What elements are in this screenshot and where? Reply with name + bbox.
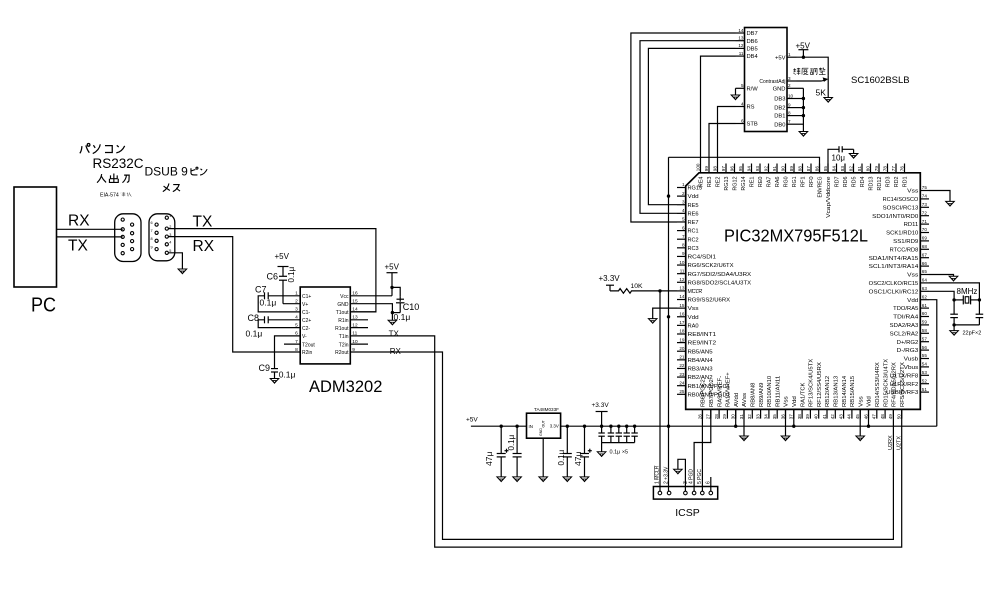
regulator U3 TA48M033F body <box>527 413 561 438</box>
junction DB1 <box>802 114 805 117</box>
svg-text:14: 14 <box>679 294 685 299</box>
svg-text:1: 1 <box>682 182 685 187</box>
svg-text:RB5/AN5: RB5/AN5 <box>688 349 713 355</box>
svg-text:42: 42 <box>830 414 835 420</box>
svg-text:AVss: AVss <box>742 392 748 407</box>
svg-text:GND: GND <box>337 302 349 308</box>
svg-text:Vss: Vss <box>907 189 919 195</box>
svg-text:2 +3.3V: 2 +3.3V <box>664 466 670 484</box>
svg-text:RA6: RA6 <box>775 176 781 187</box>
svg-text:T1in: T1in <box>339 334 349 340</box>
wire Vss pin45 to ground <box>859 409 861 436</box>
svg-text:0.1μ: 0.1μ <box>279 370 296 380</box>
svg-text:RX: RX <box>68 213 90 230</box>
wire rail to Vdd pin62 <box>929 300 937 427</box>
wire Vdd top rail to ENVREG pin86 <box>669 157 820 173</box>
ground at crystal <box>950 331 959 336</box>
svg-text:92: 92 <box>763 166 768 172</box>
svg-text:54: 54 <box>922 362 928 367</box>
svg-text:+5V: +5V <box>275 252 290 261</box>
svg-text:58: 58 <box>922 328 928 333</box>
label pasokon (katakana) <box>80 144 125 154</box>
svg-text:7: 7 <box>151 229 153 233</box>
svg-text:33: 33 <box>755 414 760 420</box>
svg-text:ICSP: ICSP <box>675 507 700 519</box>
svg-text:48: 48 <box>880 414 885 420</box>
svg-text:R1in: R1in <box>338 318 349 324</box>
U2 left pin stubs 1-25 <box>677 187 686 189</box>
wire Vdd pin37 to rail <box>793 409 795 426</box>
wire DB7 to U2 pin5 RE7 <box>631 33 736 222</box>
svg-text:77: 77 <box>891 166 896 172</box>
wire AVdd pin30 to rail <box>735 409 737 426</box>
svg-text:17: 17 <box>679 320 685 325</box>
svg-text:RB7/PGD2: RB7/PGD2 <box>709 379 715 407</box>
svg-text:80: 80 <box>865 166 870 172</box>
svg-text:10: 10 <box>679 260 685 265</box>
wire crystal caps to ground <box>954 324 979 326</box>
potentiometer VR1 5K <box>827 75 829 97</box>
svg-text:30: 30 <box>731 414 736 420</box>
U2 bottom pin stubs 26-50 <box>702 409 704 418</box>
svg-text:8: 8 <box>682 243 685 248</box>
junction C13 <box>566 425 569 428</box>
ground at R/W <box>731 95 740 100</box>
svg-text:RE8/INT1: RE8/INT1 <box>688 332 717 338</box>
svg-text:2: 2 <box>788 83 791 88</box>
svg-text:RG0: RG0 <box>784 176 790 187</box>
capacitor C10 polarized <box>397 298 405 300</box>
svg-text:SCL2/RA2: SCL2/RA2 <box>890 331 919 337</box>
PC box <box>14 187 57 287</box>
wire +5V to C10 <box>392 287 400 296</box>
svg-text:36: 36 <box>780 414 785 420</box>
wire TX from PC to DSUB male <box>57 236 123 238</box>
svg-text:+5V: +5V <box>466 417 478 424</box>
svg-text:5: 5 <box>741 83 744 88</box>
svg-text:0.1μ: 0.1μ <box>260 297 277 307</box>
junction crystal right <box>978 298 981 301</box>
svg-text:8MHz: 8MHz <box>957 287 978 296</box>
svg-text:60: 60 <box>922 311 928 316</box>
ground below cap bank <box>597 452 606 457</box>
junction LCD +5V <box>802 56 805 59</box>
junction Vdd pin16 <box>667 315 670 318</box>
connector J2 DSUB9 female outline <box>149 214 175 261</box>
svg-text:72: 72 <box>922 210 928 215</box>
wire U1 pin14 T1out stub <box>350 311 376 313</box>
svg-text:C2+: C2+ <box>302 318 311 324</box>
svg-text:14: 14 <box>738 28 744 33</box>
svg-text:11: 11 <box>739 51 744 56</box>
svg-text:12: 12 <box>679 277 685 282</box>
svg-text:+3.3V: +3.3V <box>592 402 610 409</box>
wire STB to U2 pin99 RE3 <box>709 124 736 164</box>
connector J4 LCD SC1602BSLB body <box>745 28 788 132</box>
svg-text:RF0: RF0 <box>809 176 815 187</box>
wire U2 pin15 Vss to ground <box>653 308 677 319</box>
crystal X1 8MHz <box>954 299 963 301</box>
svg-text:32: 32 <box>747 414 752 420</box>
svg-text:RE7: RE7 <box>688 220 699 226</box>
junction crystal left <box>952 298 955 301</box>
ground at C22 <box>849 154 858 159</box>
svg-text:29: 29 <box>722 414 727 420</box>
svg-text:27: 27 <box>706 414 711 420</box>
svg-text:22: 22 <box>679 363 685 368</box>
wire +5V rail to regulator IN <box>471 425 527 427</box>
svg-text:46: 46 <box>863 414 868 420</box>
capacitor C11 47u electrolytic <box>500 426 502 453</box>
svg-text:20: 20 <box>679 346 685 351</box>
svg-text:91: 91 <box>772 166 777 172</box>
IC U2 PIC32MX795F512L body <box>686 173 921 410</box>
wire OSC1 pin63 to crystal <box>929 291 954 300</box>
svg-text:RC2: RC2 <box>688 237 699 243</box>
svg-text:SCL1/INT3/RA14: SCL1/INT3/RA14 <box>869 264 919 270</box>
svg-text:Vdd: Vdd <box>792 396 798 407</box>
svg-text:RG7/SDI2/SDA4/U3RX: RG7/SDI2/SDA4/U3RX <box>688 272 752 278</box>
ground below J2 <box>178 269 187 274</box>
wire 3.3V rail from regulator <box>561 425 937 427</box>
svg-text:RG6/SCK2/U6TX: RG6/SCK2/U6TX <box>688 263 735 269</box>
svg-text:MCLR: MCLR <box>688 289 703 295</box>
connector J1 pins <box>121 218 124 221</box>
svg-text:7: 7 <box>682 234 685 239</box>
svg-text:RE5: RE5 <box>688 203 699 209</box>
svg-text:TX: TX <box>68 238 88 255</box>
svg-text:TDI/RA4: TDI/RA4 <box>893 315 918 321</box>
svg-text:3: 3 <box>682 199 685 204</box>
wire U1 pin16 Vcc <box>350 295 392 297</box>
svg-text:45: 45 <box>855 414 860 420</box>
label kido chosei (brightness adjust) <box>793 68 825 75</box>
ground at AVss <box>740 436 749 441</box>
junction MCLR to ICSP <box>658 289 661 292</box>
svg-text:37: 37 <box>789 414 794 420</box>
svg-text:RG12: RG12 <box>733 176 739 190</box>
svg-text:RE2: RE2 <box>716 176 722 187</box>
svg-text:RB10/AN10: RB10/AN10 <box>767 376 773 407</box>
svg-text:1: 1 <box>169 214 171 218</box>
svg-text:10: 10 <box>352 339 358 345</box>
ground at pin65 <box>949 276 958 281</box>
capacitor C9 <box>271 368 278 370</box>
svg-text:Vcap/Vddcore: Vcap/Vddcore <box>826 176 832 218</box>
capacitor C20 22pF <box>953 300 955 314</box>
svg-text:38: 38 <box>797 414 802 420</box>
svg-text:OUT: OUT <box>542 420 546 427</box>
svg-text:RA9/VREF-: RA9/VREF- <box>717 376 723 407</box>
svg-text:40: 40 <box>814 414 819 420</box>
svg-text:C1-: C1- <box>302 310 310 316</box>
wire Vss pin75 to ground <box>929 191 950 202</box>
svg-text:35: 35 <box>772 414 777 420</box>
svg-text:RD1: RD1 <box>903 176 909 187</box>
svg-text:C2-: C2- <box>302 326 310 332</box>
svg-text:81: 81 <box>857 166 862 172</box>
svg-text:69: 69 <box>922 236 928 241</box>
svg-text:C6: C6 <box>266 272 278 282</box>
svg-text:Vcc: Vcc <box>340 294 349 300</box>
svg-text:8: 8 <box>295 347 298 353</box>
U1 left pin stubs <box>284 343 300 345</box>
svg-text:RE1: RE1 <box>750 176 756 187</box>
svg-text:82: 82 <box>848 166 853 172</box>
svg-text:25: 25 <box>679 389 685 394</box>
resistor R1 10K <box>610 289 677 294</box>
svg-text:67: 67 <box>922 252 928 257</box>
svg-text:RD15/SCK3/U4TX: RD15/SCK3/U4TX <box>883 358 889 407</box>
svg-text:55: 55 <box>922 353 928 358</box>
wire Vcap pin85 to C22 <box>828 149 839 173</box>
svg-text:89: 89 <box>789 166 794 172</box>
junction GND C10 <box>391 311 394 314</box>
svg-text:34: 34 <box>764 414 769 420</box>
svg-text:8: 8 <box>151 237 153 241</box>
svg-text:15: 15 <box>679 303 685 308</box>
svg-text:6: 6 <box>682 225 685 230</box>
svg-text:0.1μ: 0.1μ <box>507 434 516 450</box>
svg-text:RC4/SDI1: RC4/SDI1 <box>688 255 717 261</box>
ground at pin75 <box>946 201 955 206</box>
wire J2 pin5 to ground <box>168 253 182 269</box>
svg-text:RA7: RA7 <box>767 176 773 187</box>
svg-text:RG8/SDO2/SCL4/U3TX: RG8/SDO2/SCL4/U3TX <box>688 280 752 286</box>
svg-text:DB0: DB0 <box>774 122 785 128</box>
svg-text:RTCC/RD8: RTCC/RD8 <box>890 247 919 253</box>
wire regulator GND to ground <box>542 438 544 477</box>
svg-text:RB12/AN12: RB12/AN12 <box>825 376 831 407</box>
svg-text:65: 65 <box>922 269 928 274</box>
connector J2 pins right column 1-5 <box>165 216 168 219</box>
svg-text:SDA1/INT4/RA15: SDA1/INT4/RA15 <box>869 256 919 262</box>
svg-text:R2out: R2out <box>335 350 349 356</box>
svg-text:90: 90 <box>780 166 785 172</box>
svg-text:RD6: RD6 <box>843 176 849 187</box>
svg-text:T2in: T2in <box>339 342 349 348</box>
junction DB3 <box>802 97 805 100</box>
svg-text:U2TX: U2TX <box>897 436 903 450</box>
svg-text:79: 79 <box>874 166 879 172</box>
svg-text:C9: C9 <box>259 363 271 373</box>
svg-text:DB5: DB5 <box>747 47 758 53</box>
wire Vss pin65 to ground <box>929 275 954 277</box>
svg-text:22pF×2: 22pF×2 <box>963 331 982 337</box>
connector J3 ICSP body <box>653 487 717 500</box>
svg-text:87: 87 <box>806 166 811 172</box>
svg-text:24: 24 <box>679 380 685 385</box>
svg-text:51: 51 <box>922 387 928 392</box>
svg-text:52: 52 <box>922 378 928 383</box>
svg-text:97: 97 <box>721 166 726 172</box>
wire DB5 to U2 pin3 RE5 <box>648 48 735 204</box>
svg-text:RD7: RD7 <box>835 176 841 187</box>
svg-text:RD13: RD13 <box>869 176 875 190</box>
svg-text:83: 83 <box>840 166 845 172</box>
svg-text:13: 13 <box>679 286 685 291</box>
svg-text:RC14/SOSCO: RC14/SOSCO <box>883 197 919 203</box>
svg-text:SC1602BSLB: SC1602BSLB <box>851 75 910 86</box>
svg-text:RD11: RD11 <box>904 222 919 228</box>
connector J3 pin circles <box>658 491 662 495</box>
svg-text:V+: V+ <box>302 302 308 308</box>
svg-text:DB2: DB2 <box>774 106 785 112</box>
svg-text:47: 47 <box>872 414 877 420</box>
svg-text:DB3: DB3 <box>774 97 785 103</box>
svg-text:RC3: RC3 <box>688 246 699 252</box>
wire AVss pin31 to ground <box>743 409 745 436</box>
label nyushutsuryoku (kanji I/O) <box>97 173 129 182</box>
svg-text:Vss: Vss <box>907 273 919 279</box>
IC U1 ADM3202 body <box>300 287 350 364</box>
svg-text:94: 94 <box>746 166 751 172</box>
svg-text:10μ: 10μ <box>832 153 846 162</box>
wire TX net ADM T1in to PIC U2TX pin50 <box>350 336 901 547</box>
svg-text:4: 4 <box>682 208 685 213</box>
wire ICSP pin6 stub <box>710 477 712 491</box>
capacitor C13 0.1u <box>566 426 568 453</box>
svg-text:STB: STB <box>747 122 758 128</box>
svg-text:EIA-574: EIA-574 <box>100 193 119 199</box>
ground below C9 <box>270 379 279 384</box>
svg-text:PIC32MX795F512L: PIC32MX795F512L <box>724 226 868 246</box>
svg-text:49: 49 <box>888 414 893 420</box>
U2 right pin stubs 75-51 <box>920 190 929 192</box>
svg-text:62: 62 <box>922 294 928 299</box>
svg-text:RD2: RD2 <box>894 176 900 187</box>
ground at U2 pin15 <box>648 319 657 324</box>
svg-text:56: 56 <box>922 345 928 350</box>
wire RX net ADM R2out to PIC U2RX pin49 <box>350 352 893 539</box>
svg-text:43: 43 <box>838 414 843 420</box>
svg-text:19: 19 <box>679 337 685 342</box>
svg-text:RB9/AN9: RB9/AN9 <box>759 382 765 407</box>
svg-text:D-/RG3: D-/RG3 <box>897 348 919 354</box>
svg-text:6: 6 <box>741 118 744 123</box>
junction Vdd rail <box>667 425 670 428</box>
svg-text:41: 41 <box>822 414 827 420</box>
svg-text:RF12/SS4/U5RX: RF12/SS4/U5RX <box>817 362 823 407</box>
ground at Vss pin45 <box>856 436 865 441</box>
svg-text:RG9/SS2/U6RX: RG9/SS2/U6RX <box>688 298 731 304</box>
svg-text:+5V: +5V <box>775 55 786 61</box>
svg-text:31: 31 <box>739 414 744 420</box>
svg-text:57: 57 <box>922 336 928 341</box>
svg-text:RG14: RG14 <box>741 176 747 190</box>
svg-text:RB13/AN13: RB13/AN13 <box>834 376 840 407</box>
svg-text:10K: 10K <box>631 283 644 290</box>
svg-text:88: 88 <box>797 166 802 172</box>
svg-text:63: 63 <box>922 286 928 291</box>
svg-text:85: 85 <box>823 166 828 172</box>
svg-text:T1out: T1out <box>336 310 349 316</box>
svg-text:RS: RS <box>747 105 755 111</box>
svg-text:C8: C8 <box>248 313 260 323</box>
svg-text:PC: PC <box>31 295 56 317</box>
svg-text:8: 8 <box>788 110 791 115</box>
svg-text:OSC1/CLKI/RC12: OSC1/CLKI/RC12 <box>869 289 919 295</box>
svg-text:ContrastAdj: ContrastAdj <box>759 79 785 85</box>
wire ICSP pin4 PGD to PIC pin27 <box>694 409 711 491</box>
svg-text:16: 16 <box>679 311 685 316</box>
svg-text:100: 100 <box>695 163 700 171</box>
svg-text:RD14/SS3/U4RX: RD14/SS3/U4RX <box>875 362 881 407</box>
svg-text:D+/RG2: D+/RG2 <box>897 340 919 346</box>
svg-text:Vdd: Vdd <box>688 315 699 321</box>
svg-text:70: 70 <box>922 227 928 232</box>
svg-text:3: 3 <box>788 76 791 81</box>
svg-text:RD12: RD12 <box>877 176 883 190</box>
svg-text:74: 74 <box>922 194 928 199</box>
junction DB2 <box>802 106 805 109</box>
svg-text:OSC2/CLKO/RC15: OSC2/CLKO/RC15 <box>869 281 919 287</box>
svg-text:RX: RX <box>193 238 215 255</box>
wire Vdd pin46 to rail <box>868 409 870 426</box>
svg-text:0.1μ: 0.1μ <box>287 266 296 282</box>
svg-text:23: 23 <box>679 372 685 377</box>
U1 right pin stubs <box>350 319 368 321</box>
svg-text:RE6: RE6 <box>688 211 699 217</box>
svg-text:18: 18 <box>679 329 685 334</box>
svg-text:28: 28 <box>714 414 719 420</box>
svg-text:RF1: RF1 <box>801 176 807 187</box>
svg-text:39: 39 <box>805 414 810 420</box>
svg-text:RA10/VREF+: RA10/VREF+ <box>726 372 732 407</box>
connector J1 DSUB9 male outline <box>115 214 141 262</box>
svg-text:1: 1 <box>788 52 791 57</box>
U2 top pin stubs 100-76 <box>700 164 702 173</box>
capacitor bank C15-C19 0.1u x5 <box>601 426 603 433</box>
svg-text:DSUB 9: DSUB 9 <box>145 165 189 179</box>
junction C12 <box>515 425 518 428</box>
wire RX from PC to DSUB male <box>57 228 123 230</box>
svg-text:95: 95 <box>738 166 743 172</box>
svg-text:DB1: DB1 <box>774 114 785 120</box>
svg-text:9: 9 <box>151 245 153 249</box>
svg-text:75: 75 <box>922 185 928 190</box>
svg-text:RS232C: RS232C <box>93 156 144 171</box>
svg-text:1 MCLR: 1 MCLR <box>654 465 660 484</box>
svg-text:44: 44 <box>847 414 852 420</box>
wire Vss pin36 to ground <box>785 409 787 436</box>
svg-text:5 PGC: 5 PGC <box>697 469 703 484</box>
wire DB6 to U2 pin4 RE6 <box>640 41 736 214</box>
label mesu (female) <box>163 183 180 191</box>
svg-text:RC1: RC1 <box>688 229 699 235</box>
svg-text:Vdd: Vdd <box>867 396 873 407</box>
ground below C10 <box>388 320 397 325</box>
wire U1 pin6 V- to C9 <box>275 336 301 369</box>
svg-text:7: 7 <box>295 339 298 345</box>
capacitor C22 10u <box>838 146 840 152</box>
wire OSC2 pin64 to crystal <box>929 283 979 300</box>
svg-text:RB4/AN4: RB4/AN4 <box>688 358 713 364</box>
svg-text:+5V: +5V <box>385 262 400 271</box>
svg-text:RE0: RE0 <box>758 176 764 187</box>
svg-text:Vdd: Vdd <box>907 298 918 304</box>
ground below LCD bus <box>799 132 808 137</box>
svg-text:RE4: RE4 <box>699 176 705 187</box>
capacitor C6 <box>279 275 287 277</box>
svg-text:TX: TX <box>193 214 213 231</box>
svg-text:RD3: RD3 <box>886 176 892 187</box>
wire ContrastAdj to wiper <box>797 80 822 82</box>
svg-text:66: 66 <box>922 261 928 266</box>
svg-text:47μ: 47μ <box>484 452 494 466</box>
wire LCD pin1 +5V to potentiometer <box>797 57 829 75</box>
wire C7 to pin1 and pin3 <box>258 296 300 312</box>
